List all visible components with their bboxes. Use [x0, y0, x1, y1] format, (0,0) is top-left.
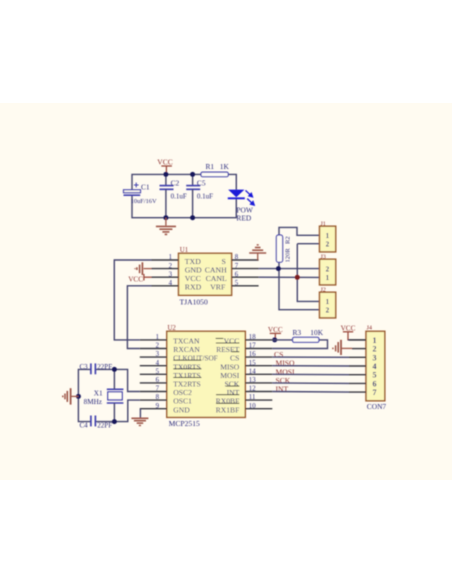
- resistor R2 120R: [276, 227, 319, 268]
- svg-text:U1: U1: [180, 247, 188, 254]
- junction U2 pin18: [272, 337, 277, 342]
- svg-text:3: 3: [373, 353, 377, 362]
- wire CANL down to J2 pin1: [297, 277, 319, 301]
- capacitor C4: [80, 416, 113, 430]
- svg-text:VCC: VCC: [157, 158, 172, 167]
- connector J3: [320, 253, 336, 285]
- crystal X1: [84, 389, 124, 406]
- U1 pins right: [232, 260, 259, 286]
- ground top (power rail): [156, 218, 176, 235]
- connector J4 CON7: [366, 325, 386, 412]
- resistor R1: [201, 162, 229, 177]
- capacitor C3: [80, 363, 113, 374]
- junction C5 top: [190, 172, 195, 177]
- ground inverted at U1 pin8 (S): [249, 245, 266, 260]
- junction C5 bottom: [190, 215, 195, 220]
- svg-text:6: 6: [373, 379, 377, 388]
- svg-text:VRF: VRF: [210, 283, 226, 292]
- svg-text:2: 2: [326, 266, 330, 274]
- svg-text:1: 1: [326, 298, 330, 306]
- LED POW RED: [228, 190, 254, 223]
- wire crystal top node: [95, 369, 139, 391]
- wire CS to CON7: [272, 356, 349, 358]
- power port VCC at U1 pin3: [128, 274, 151, 284]
- svg-text:10uF/16V: 10uF/16V: [131, 198, 157, 205]
- svg-text:120R: 120R: [285, 248, 292, 263]
- power port VCC at CON7 pin1: [341, 325, 366, 340]
- wire SCK to CON7: [272, 382, 349, 385]
- wire CANH down to J2 pin2: [279, 269, 320, 310]
- IC U1 TJA1050 CAN transceiver: [169, 247, 239, 307]
- svg-text:C1: C1: [141, 182, 150, 191]
- svg-text:U2: U2: [168, 325, 177, 332]
- svg-text:22PF: 22PF: [97, 363, 112, 371]
- svg-text:4: 4: [373, 362, 377, 371]
- U2 pins left: [140, 340, 167, 409]
- wire top rail: [132, 174, 236, 190]
- wire crystal bottom node: [95, 400, 139, 422]
- svg-text:2: 2: [326, 307, 330, 315]
- wire MISO to CON7: [272, 365, 349, 367]
- ground at U2 pin9: [131, 409, 148, 426]
- svg-text:7: 7: [373, 388, 377, 397]
- svg-text:J4: J4: [367, 325, 373, 332]
- power port VCC top: [157, 158, 172, 175]
- svg-text:J2: J2: [320, 286, 326, 293]
- svg-text:R2: R2: [285, 236, 292, 244]
- junction C2 bottom: [163, 215, 168, 220]
- svg-text:VCC: VCC: [128, 275, 143, 283]
- svg-text:RED: RED: [236, 214, 251, 223]
- svg-text:0.1uF: 0.1uF: [197, 193, 213, 201]
- svg-text:RXCAN: RXCAN: [173, 345, 200, 354]
- wire RXD to RXCAN: [127, 286, 151, 349]
- svg-text:2: 2: [326, 241, 330, 249]
- ground sideways at U1 pin2: [135, 262, 152, 275]
- svg-text:1: 1: [326, 274, 330, 282]
- resistor R3 10K: [272, 328, 327, 349]
- svg-text:C3: C3: [80, 363, 89, 371]
- connector J2: [320, 286, 336, 318]
- svg-text:RXD: RXD: [185, 283, 202, 292]
- wire CANH: [259, 268, 320, 270]
- U1 pins left: [152, 260, 179, 286]
- svg-text:X1: X1: [94, 390, 103, 398]
- IC U2 MCP2515 CAN controller: [156, 325, 257, 428]
- wire crystal left branch: [78, 369, 91, 421]
- overbars for active-low pin names: [173, 338, 239, 403]
- svg-text:TJA1050: TJA1050: [180, 298, 208, 307]
- junction CANH/R2: [276, 266, 281, 271]
- svg-text:C5: C5: [197, 178, 206, 187]
- svg-text:C2: C2: [171, 178, 180, 187]
- capacitor C2: [160, 174, 187, 217]
- wire MOSI to CON7: [272, 373, 349, 375]
- wire TXD to TXCAN: [114, 260, 151, 340]
- wire J1 pin2 to CANL: [297, 244, 319, 278]
- svg-text:8MHz: 8MHz: [84, 398, 102, 406]
- CON7 pin stubs: [349, 340, 366, 392]
- svg-text:0.1uF: 0.1uF: [171, 193, 187, 201]
- svg-text:2: 2: [373, 345, 377, 354]
- connector J1: [320, 220, 336, 252]
- junction C2 top: [163, 172, 168, 177]
- wire bottom rail: [132, 196, 236, 218]
- svg-text:22PF: 22PF: [97, 422, 112, 430]
- U2 pins right: [245, 340, 272, 409]
- svg-text:J1: J1: [320, 220, 326, 227]
- svg-text:R3: R3: [293, 328, 302, 337]
- junction crystal left: [76, 394, 81, 399]
- junction CANL (red): [295, 275, 300, 280]
- svg-text:MCP2515: MCP2515: [169, 419, 200, 428]
- svg-text:1K: 1K: [220, 162, 230, 171]
- wire CANL: [259, 276, 320, 278]
- svg-text:C4: C4: [80, 422, 89, 430]
- svg-text:J3: J3: [320, 253, 326, 260]
- svg-text:10K: 10K: [310, 328, 323, 337]
- svg-text:R1: R1: [206, 162, 215, 171]
- junction crystal bottom: [112, 419, 117, 424]
- svg-text:RX1BF: RX1BF: [216, 405, 240, 414]
- capacitor C5: [186, 174, 213, 217]
- power port VCC at U2 pin18: [268, 326, 283, 340]
- wire INT to CON7: [272, 391, 349, 394]
- svg-text:5: 5: [373, 371, 377, 380]
- capacitor C1: [124, 182, 158, 205]
- svg-text:GND: GND: [173, 405, 190, 414]
- svg-text:CON7: CON7: [367, 402, 387, 411]
- ground sideways at CON7 pin2: [333, 340, 352, 355]
- svg-text:1: 1: [326, 232, 330, 240]
- ground sideways at crystal: [63, 388, 79, 404]
- svg-text:1: 1: [373, 336, 377, 345]
- junction crystal top: [112, 367, 117, 372]
